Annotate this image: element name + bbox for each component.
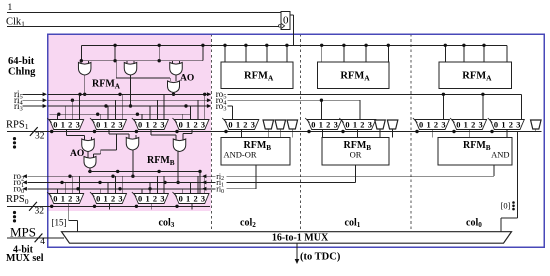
svg-text:0 1 2 3: 0 1 2 3 [138,194,165,203]
svg-text:[0]: [0] [501,201,511,211]
svg-text:32: 32 [35,207,45,217]
svg-text:AO: AO [180,74,194,84]
svg-text:0 1 2 3: 0 1 2 3 [179,120,206,129]
svg-text:0 1 2 3: 0 1 2 3 [96,120,123,129]
svg-text:MPS: MPS [10,225,36,240]
svg-text:0 1 2 3: 0 1 2 3 [228,120,255,129]
svg-text:0 1 2 3: 0 1 2 3 [179,194,206,203]
svg-text:AND: AND [491,150,509,160]
svg-text:(to TDC): (to TDC) [300,252,341,263]
svg-text:[15]: [15] [52,218,67,228]
svg-text:MUX sel: MUX sel [6,253,44,264]
svg-text:OR: OR [350,150,362,160]
svg-text:0 1 2 3: 0 1 2 3 [96,194,123,203]
svg-text:0: 0 [283,15,289,27]
svg-text:0 1 2 3: 0 1 2 3 [456,120,483,129]
svg-text:0 1 2 3: 0 1 2 3 [138,120,165,129]
svg-text:AND-OR: AND-OR [224,150,257,160]
svg-text:32: 32 [35,132,45,142]
svg-text:1: 1 [8,3,13,13]
svg-text:0 1 2 3: 0 1 2 3 [53,120,80,129]
svg-text:0 1 2 3: 0 1 2 3 [53,194,80,203]
svg-text:Chlng: Chlng [8,67,36,78]
svg-text:4: 4 [40,237,45,247]
svg-text:0 1 2 3: 0 1 2 3 [311,120,338,129]
svg-text:64-bit: 64-bit [8,56,35,67]
svg-text:16-to-1 MUX: 16-to-1 MUX [272,233,329,244]
svg-text:AO: AO [70,149,84,159]
svg-text:0 1 2 3: 0 1 2 3 [345,120,372,129]
svg-text:0 1 2 3: 0 1 2 3 [419,120,446,129]
svg-text:0 1 2 3: 0 1 2 3 [494,120,521,129]
